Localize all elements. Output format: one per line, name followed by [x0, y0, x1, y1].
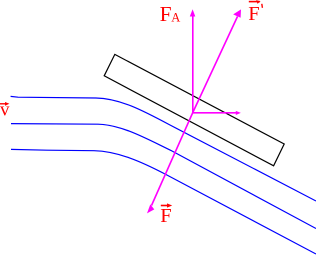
plate (tilted rectangle)	[104, 54, 284, 165]
horizontal component arrow (magenta)	[193, 111, 241, 115]
svg-text:F: F	[160, 2, 172, 26]
svg-text:F: F	[160, 205, 171, 227]
F' overbar arrow	[249, 0, 261, 4]
streamline 3 (bottom)	[11, 149, 316, 254]
vector F arrow (down-left, magenta)	[147, 113, 193, 214]
svg-text:A: A	[171, 11, 180, 25]
streamline 1 (top)	[11, 96, 316, 201]
prime mark	[261, 4, 264, 8]
vector F' arrow (up-right, magenta)	[193, 9, 241, 112]
svg-text:F: F	[248, 3, 259, 25]
v overbar arrow	[0, 102, 9, 106]
vector FA arrow (vertical, magenta)	[190, 9, 196, 112]
streamline 2 (middle)	[11, 124, 316, 229]
F overbar arrow	[161, 203, 172, 207]
